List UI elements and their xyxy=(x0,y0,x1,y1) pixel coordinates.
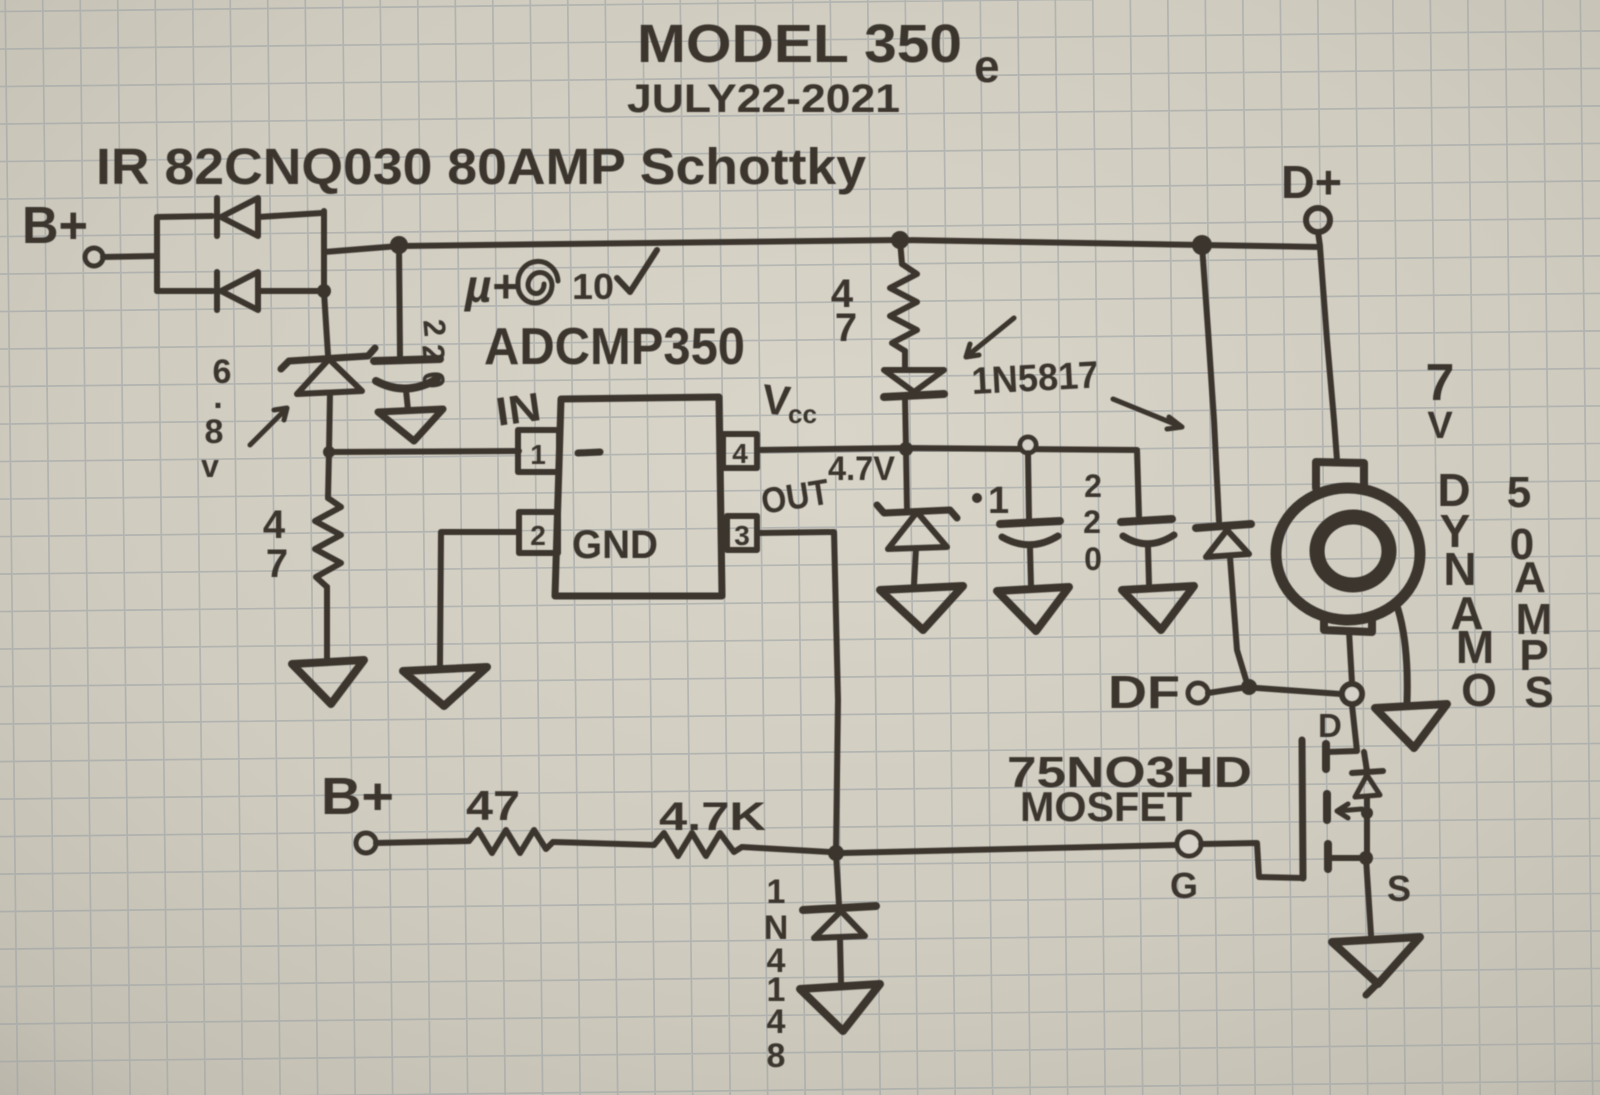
terminal B+ (bottom) xyxy=(321,768,394,853)
ground (below D5) xyxy=(800,984,880,1031)
svg-text:1N5817: 1N5817 xyxy=(970,354,1099,403)
node (gate open circle) xyxy=(1177,832,1201,856)
svg-text:5: 5 xyxy=(1507,468,1531,517)
label 75N03HD MOSFET xyxy=(1007,748,1252,830)
node (DF junction) xyxy=(1241,679,1257,695)
ground (below C3) xyxy=(1122,586,1194,630)
arrow (Q1 substrate) xyxy=(1337,804,1362,818)
label 7V (vertical) xyxy=(1426,354,1455,447)
wire source stub xyxy=(1328,855,1363,861)
svg-text:D: D xyxy=(1318,707,1342,744)
label GND (inside U1) xyxy=(572,523,658,567)
wire top rail xyxy=(324,240,1320,252)
zener Z1 6.8V xyxy=(281,348,375,452)
svg-text:IN: IN xyxy=(493,385,544,435)
label IR 82CNQ030 80AMP Schottky xyxy=(96,138,867,195)
wire gate circle to gate bar xyxy=(1201,843,1303,878)
svg-text:MOSFET: MOSFET xyxy=(1020,783,1192,830)
transistor Q1 channel segments xyxy=(1326,744,1328,869)
label 47 (R1) xyxy=(263,503,288,586)
svg-text:MODEL 350: MODEL 350 xyxy=(637,14,962,74)
date JULY22-2021 xyxy=(627,77,900,121)
label DYNAMO (vertical) xyxy=(1437,464,1497,716)
node (rail junction at 220uF cap) xyxy=(390,236,408,254)
wire B+ to R3 xyxy=(376,841,469,843)
wire dynamo right lead xyxy=(1396,603,1407,702)
label D xyxy=(1318,707,1342,744)
svg-text:e: e xyxy=(974,40,1000,92)
diode D5 1N4148 xyxy=(803,853,876,983)
wire pin2 to ground xyxy=(440,532,519,666)
label OUT xyxy=(758,471,832,522)
svg-text:10: 10 xyxy=(572,266,614,307)
node (substrate dot) xyxy=(1361,807,1373,819)
capacitor C1 220uF xyxy=(374,246,440,410)
svg-text:4.7V: 4.7V xyxy=(828,450,895,488)
wire pin4 Vcc rail xyxy=(757,448,1139,516)
svg-text:cc: cc xyxy=(788,399,817,429)
svg-text:GND: GND xyxy=(572,523,658,567)
pin 3 xyxy=(727,516,757,551)
label 4.7K (R4) xyxy=(659,795,766,839)
label G xyxy=(1170,865,1198,906)
label 1N4148 (vertical) xyxy=(764,873,789,1075)
node (rail junction at 47 resistor) xyxy=(891,231,909,249)
svg-text:47: 47 xyxy=(466,782,520,829)
node (source junction) xyxy=(1359,851,1373,865)
node (rail junction at DF diode) xyxy=(1192,235,1212,255)
wire source to ground xyxy=(1366,858,1371,935)
diode D4 (rail to DF) xyxy=(1196,245,1251,683)
svg-text:B+: B+ xyxy=(22,197,88,255)
label S xyxy=(1387,868,1411,909)
svg-text:4: 4 xyxy=(767,1003,786,1041)
svg-text:B+: B+ xyxy=(321,768,394,826)
resistor R4 4.7K xyxy=(654,833,742,856)
pin 1 xyxy=(518,430,559,472)
ground (below R1) xyxy=(292,660,364,704)
resistor R1 47 (vertical) xyxy=(315,452,341,660)
svg-text:V: V xyxy=(1427,405,1453,447)
wire U1 OUT to gate node xyxy=(757,532,838,852)
svg-text:7: 7 xyxy=(835,306,857,350)
wire B+ to diode pair xyxy=(103,256,157,257)
label Vcc xyxy=(760,375,817,429)
terminal B+ (top) xyxy=(22,197,103,266)
svg-text:1: 1 xyxy=(767,873,786,911)
svg-text:0: 0 xyxy=(415,370,451,390)
capacitor C3 220 xyxy=(1121,519,1174,584)
op-amp U1 ADCMP350 box xyxy=(484,318,745,596)
annotation u+ @ 10 (check) xyxy=(463,250,657,312)
svg-text:S: S xyxy=(1387,868,1411,909)
svg-text:S: S xyxy=(1524,668,1553,717)
svg-text:0: 0 xyxy=(1084,541,1102,577)
wire DF node to drain circle xyxy=(1257,688,1341,694)
label 1N5817 xyxy=(970,354,1099,403)
node (open circle at .1 cap) xyxy=(1020,437,1036,453)
diode body (Q1) xyxy=(1352,752,1383,858)
arrow (points to zener) xyxy=(250,408,287,445)
ground (below Z2) xyxy=(880,586,963,630)
motor M1 dynamo body xyxy=(1276,462,1420,683)
label .1 xyxy=(972,480,1009,522)
ground (dynamo) xyxy=(1375,704,1447,748)
diode D2 (bottom Schottky) xyxy=(217,272,258,310)
arrow (to D3) xyxy=(966,318,1014,357)
label 47 (R2) xyxy=(831,272,857,350)
svg-text:2: 2 xyxy=(415,343,451,363)
node (Vcc junction) xyxy=(899,442,913,456)
svg-text:µ+: µ+ xyxy=(463,260,518,312)
svg-text:O: O xyxy=(1461,664,1497,716)
svg-text:4.7K: 4.7K xyxy=(659,795,766,839)
diode D3 1N5817 xyxy=(884,370,944,448)
resistor R3 47 xyxy=(469,830,553,853)
label 47 (R3) xyxy=(466,782,520,829)
minus sign (inside U1) xyxy=(578,452,600,453)
svg-text:ADCMP350: ADCMP350 xyxy=(484,318,745,376)
label IN xyxy=(493,385,544,435)
svg-text:2: 2 xyxy=(530,520,546,551)
node (open circle, drain/dynamo) xyxy=(1342,684,1362,704)
title MODEL 350e xyxy=(637,14,1000,92)
svg-text:7: 7 xyxy=(1426,354,1455,412)
ground (pin 2) xyxy=(403,667,487,706)
wire gate node to gate circle xyxy=(843,845,1176,853)
ground (Q1 source) xyxy=(1332,937,1420,995)
svg-text:IR 82CNQ030 80AMP Schottky: IR 82CNQ030 80AMP Schottky xyxy=(96,138,867,195)
svg-text:8: 8 xyxy=(767,1037,786,1075)
svg-text:2: 2 xyxy=(416,318,452,338)
svg-text:1: 1 xyxy=(988,480,1009,522)
junction (diode pair output) xyxy=(317,284,331,298)
diode pair frame (left/right verticals and branch wires) xyxy=(157,211,324,292)
terminal DF xyxy=(1108,666,1208,718)
ground (below C1) xyxy=(378,409,443,441)
svg-text:2: 2 xyxy=(1083,504,1101,540)
wire to IC pin 1 xyxy=(329,451,519,452)
wire D+ to dynamo xyxy=(1318,232,1337,460)
svg-text:4: 4 xyxy=(732,438,748,469)
wire DF to node xyxy=(1208,688,1241,693)
pin 2 xyxy=(519,512,558,553)
terminal D+ xyxy=(1281,156,1342,232)
wire stub diode pair to zener xyxy=(324,292,328,355)
svg-text:v: v xyxy=(201,448,219,484)
zener Z2 4.7V xyxy=(877,449,957,585)
label 220 (rotated) xyxy=(415,318,452,390)
svg-text:7: 7 xyxy=(266,542,288,586)
svg-text:2: 2 xyxy=(1084,468,1102,504)
label 50AMPS (vertical) xyxy=(1507,468,1554,717)
resistor R2 47 (vertical, Vcc feed) xyxy=(890,240,917,367)
arrow (to DF diode wire) xyxy=(1113,399,1182,429)
svg-text:DF: DF xyxy=(1108,666,1180,718)
wire drain stub xyxy=(1326,705,1357,752)
label 6.8V (vertical) xyxy=(201,353,231,484)
capacitor C2 .1 xyxy=(1000,453,1060,586)
node (gate junction) xyxy=(828,845,844,861)
svg-text:D+: D+ xyxy=(1281,156,1342,208)
label 220 (vertical) xyxy=(1083,468,1102,577)
svg-text:JULY22-2021: JULY22-2021 xyxy=(627,77,900,121)
diode D1 (top Schottky) xyxy=(217,198,258,236)
label 4.7V xyxy=(828,450,895,488)
wire R4 to gate node xyxy=(742,847,830,852)
svg-text:8: 8 xyxy=(205,413,224,451)
svg-text:1: 1 xyxy=(530,439,546,470)
transistor Q1 gate bar xyxy=(1302,740,1303,878)
svg-text:G: G xyxy=(1170,865,1198,906)
ground (below C2) xyxy=(997,587,1069,631)
svg-text:.: . xyxy=(213,378,222,416)
svg-text:3: 3 xyxy=(734,520,750,551)
svg-text:4: 4 xyxy=(263,503,286,547)
node (zener / pin1 junction) xyxy=(323,446,335,458)
wire R3 to R4 xyxy=(553,842,654,845)
pin 4 xyxy=(723,434,757,469)
